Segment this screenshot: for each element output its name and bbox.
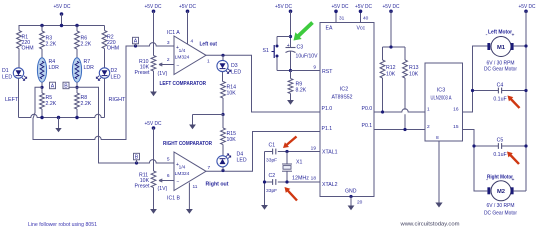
svg-text:11: 11: [193, 184, 198, 190]
capacitor C2: [265, 181, 273, 183]
wire switch S1 to RST: [276, 58, 278, 71]
svg-text:EA: EA: [326, 26, 333, 32]
svg-text:P0.0: P0.0: [362, 106, 373, 112]
svg-text:10K: 10K: [409, 72, 419, 78]
svg-text:S1: S1: [263, 48, 269, 54]
svg-text:LED: LED: [2, 75, 12, 81]
svg-text:Left Motor: Left Motor: [488, 30, 513, 36]
wire XTAL2: [278, 181, 320, 183]
wire node B routing: [77, 87, 174, 163]
svg-text:B: B: [64, 84, 68, 90]
svg-text:M1: M1: [497, 45, 506, 51]
svg-text:19: 19: [311, 146, 317, 152]
svg-text:DC Gear Motor: DC Gear Motor: [484, 211, 517, 217]
junction dot reset top: [289, 35, 292, 38]
svg-text:+5V DC: +5V DC: [145, 4, 162, 10]
svg-text:IC2: IC2: [340, 87, 348, 93]
svg-text:RIGHT COMPARATOR: RIGHT COMPARATOR: [163, 141, 212, 147]
junction dot right out: [221, 169, 224, 172]
motor M1: [491, 37, 511, 57]
svg-text:1: 1: [207, 59, 210, 65]
ground (sensor rail): [58, 118, 60, 129]
svg-text:C5: C5: [497, 138, 504, 144]
svg-text:LEFT COMPARATOR: LEFT COMPARATOR: [160, 81, 207, 87]
svg-text:10K: 10K: [386, 72, 396, 78]
svg-text:0.1uF: 0.1uF: [493, 152, 506, 158]
wire pull-up rail: [383, 46, 406, 48]
svg-text:6: 6: [167, 173, 170, 179]
LED D1: [13, 68, 23, 78]
svg-text:LM324: LM324: [175, 171, 190, 177]
wire right comparator output to P1.1: [206, 132, 320, 172]
IC2 pin EA: [335, 11, 337, 22]
junction dot XTAL1: [285, 150, 288, 153]
svg-text:10uF/10V: 10uF/10V: [296, 54, 319, 60]
svg-text:2.2K: 2.2K: [46, 101, 57, 107]
svg-text:+: +: [512, 177, 515, 183]
svg-text:4: 4: [191, 39, 194, 45]
op-amp IC1 A: [174, 36, 206, 75]
node A junction (sensor divider): [41, 82, 43, 93]
resistor R1: [18, 26, 20, 31]
junction dot left out: [221, 54, 224, 57]
wire M1 to +5V rail: [514, 45, 526, 47]
svg-text:1/4: 1/4: [179, 165, 186, 171]
svg-text:B: B: [135, 155, 139, 161]
svg-text:8.2K: 8.2K: [296, 88, 307, 94]
node B junction (sensor divider): [76, 82, 78, 93]
preset R11: [153, 128, 155, 171]
wire D2 cathode to ground rail: [104, 78, 106, 117]
svg-text:2: 2: [427, 124, 430, 130]
svg-text:AT89S52: AT89S52: [332, 95, 353, 101]
IC3 pin 8 ground wire: [438, 141, 440, 203]
svg-text:Right Motor: Right Motor: [487, 175, 514, 181]
svg-text:XTAL2: XTAL2: [322, 182, 338, 188]
svg-text:6V / 30 RPM: 6V / 30 RPM: [487, 203, 515, 209]
svg-text:+5V DC: +5V DC: [383, 4, 400, 10]
resistor R2: [104, 26, 106, 31]
svg-text:LEFT: LEFT: [5, 97, 19, 103]
svg-text:+5V DC: +5V DC: [275, 4, 292, 10]
svg-text:−: −: [177, 179, 180, 185]
svg-text:+5V DC: +5V DC: [145, 121, 162, 127]
ground (R9): [287, 100, 294, 105]
svg-text:IC3: IC3: [437, 88, 445, 94]
wire C3 to RST: [290, 52, 292, 71]
svg-text:9: 9: [313, 65, 316, 71]
svg-text:1/4: 1/4: [179, 48, 186, 54]
ground (C1 C2): [261, 205, 268, 210]
resistor R5: [40, 93, 45, 109]
node B dot at comparator: [135, 161, 138, 164]
resistor R12: [382, 47, 384, 60]
resistor R6: [76, 26, 78, 32]
op-amp IC1 B: [174, 152, 206, 191]
IC AT89S52 U-IC2 box: [320, 23, 374, 197]
svg-text:16: 16: [453, 107, 459, 113]
svg-text:A: A: [134, 39, 138, 45]
svg-text:D2: D2: [111, 68, 118, 74]
LED D3: [222, 55, 224, 60]
svg-text:15: 15: [453, 124, 459, 130]
node A label box: [50, 82, 56, 89]
svg-text:Preset: Preset: [135, 184, 151, 190]
resistor R9: [290, 71, 292, 79]
node A label box at comparator: [133, 37, 139, 44]
ground (LED chain): [189, 125, 196, 130]
svg-text:+: +: [287, 43, 290, 49]
motor M2: [491, 181, 511, 201]
svg-text:C4: C4: [497, 83, 504, 89]
capacitor C4: [473, 90, 499, 92]
resistor R3: [41, 26, 43, 32]
svg-text:+5V DC: +5V DC: [332, 4, 349, 10]
svg-text:C3: C3: [297, 45, 304, 51]
node A dot at comparator: [134, 44, 137, 47]
IC2 pin Vcc: [360, 11, 362, 22]
svg-text:2: 2: [167, 57, 170, 63]
svg-text:2.2K: 2.2K: [81, 101, 92, 107]
wire to switch S1: [277, 36, 291, 38]
capacitor C5: [474, 145, 498, 147]
wire to LED ground: [193, 114, 224, 116]
svg-text:LED: LED: [111, 75, 121, 81]
wire node A routing: [33, 43, 174, 140]
svg-text:+5V DC: +5V DC: [54, 4, 71, 10]
junction dot XTAL2: [285, 180, 288, 183]
svg-text:D1: D1: [2, 68, 9, 74]
svg-text:Vcc: Vcc: [357, 26, 366, 32]
junction dot RST: [289, 69, 292, 72]
svg-text:−: −: [177, 63, 180, 69]
red arrow annotation (C4): [508, 96, 521, 109]
svg-text:XTAL1: XTAL1: [322, 150, 338, 156]
svg-text:LDR: LDR: [49, 65, 60, 71]
svg-text:18: 18: [311, 176, 317, 182]
svg-text:RST: RST: [322, 69, 333, 75]
svg-text:R13: R13: [409, 65, 419, 71]
svg-text:(1V): (1V): [158, 186, 168, 192]
LED D2: [99, 68, 109, 78]
svg-text:LDR: LDR: [84, 65, 95, 71]
ground (IC2 GND): [348, 206, 355, 211]
svg-text:LED: LED: [237, 158, 247, 164]
node B label box at comparator: [134, 153, 140, 160]
IC ULN2003A U-IC3 box: [425, 63, 463, 141]
svg-text:31: 31: [339, 16, 345, 22]
svg-text:(1V): (1V): [158, 71, 168, 77]
svg-text:8: 8: [436, 135, 439, 141]
red arrow annotation (C1): [283, 136, 297, 148]
wire M2 to +5V rail: [514, 190, 526, 192]
green arrow annotation (C3): [294, 21, 314, 40]
svg-text:D3: D3: [231, 63, 238, 69]
svg-text:R12: R12: [386, 65, 396, 71]
svg-text:1: 1: [427, 107, 430, 113]
svg-text:A: A: [51, 84, 55, 90]
LDR R7: [72, 58, 81, 82]
wire sensor +5V rail: [19, 25, 105, 27]
wire XTAL1: [278, 151, 320, 153]
wire D1 cathode to ground rail: [18, 78, 20, 117]
wire sensor ground rail: [19, 114, 105, 117]
resistor R13: [404, 47, 406, 60]
svg-text:+5V DC: +5V DC: [355, 4, 372, 10]
svg-text:Preset: Preset: [135, 70, 151, 76]
svg-text:10K: 10K: [227, 137, 237, 143]
svg-text:P0.1: P0.1: [362, 123, 373, 129]
node B label box: [63, 82, 69, 89]
LED D4: [217, 156, 228, 167]
resistor R14: [222, 72, 224, 82]
svg-text:12MHz: 12MHz: [292, 176, 310, 182]
svg-text:OHM: OHM: [22, 46, 34, 52]
svg-text:7: 7: [208, 165, 211, 171]
svg-text:Left out: Left out: [200, 42, 218, 48]
capacitor C1: [265, 151, 273, 153]
wire capacitor common to ground: [264, 152, 266, 206]
svg-text:40: 40: [363, 16, 369, 22]
svg-text:IC1 B: IC1 B: [167, 196, 181, 202]
svg-text:LM324: LM324: [175, 55, 190, 61]
wire RST to IC2: [291, 70, 321, 72]
svg-text:+5V DC: +5V DC: [519, 4, 536, 10]
wire IC3 pin15 to M2: [463, 130, 488, 192]
svg-text:P1.0: P1.0: [322, 106, 333, 112]
svg-text:33pF: 33pF: [266, 188, 277, 194]
ground (IC3 pin 8): [435, 203, 442, 208]
wire P0.0 to IC3 pin 1: [374, 109, 425, 112]
svg-text:20: 20: [357, 200, 363, 206]
red arrow annotation (C5): [507, 152, 520, 165]
wire left comparator output to P1.0: [206, 55, 320, 112]
svg-text:0.1uF: 0.1uF: [493, 97, 506, 103]
junction dot LED chain ground: [221, 113, 224, 116]
svg-text:RIGHT: RIGHT: [109, 97, 126, 103]
svg-text:33pF: 33pF: [266, 158, 277, 164]
svg-text:-: -: [486, 178, 488, 184]
LDR R4: [37, 58, 46, 82]
svg-text:Line follower robot using 8051: Line follower robot using 8051: [28, 222, 97, 228]
svg-text:GND: GND: [345, 189, 357, 195]
resistor R15: [222, 115, 224, 129]
wire IC3 pin16 to M1: [463, 46, 489, 112]
svg-text:+5V DC: +5V DC: [179, 4, 196, 10]
crystal X1: [286, 152, 288, 165]
svg-text:OHM: OHM: [107, 46, 119, 52]
svg-text:LED: LED: [231, 70, 241, 76]
switch S1: [276, 45, 279, 48]
svg-text:C2: C2: [269, 173, 276, 179]
node junction dots on sensor rail: [40, 24, 43, 27]
svg-text:IC1 A: IC1 A: [167, 30, 180, 36]
svg-text:M2: M2: [497, 189, 505, 195]
resistor R8: [75, 93, 80, 109]
IC2 GND pin 20: [349, 195, 352, 198]
svg-text:DC Gear Motor: DC Gear Motor: [484, 67, 517, 73]
ground (IC1B pin 11): [188, 183, 190, 210]
svg-text:ULN2003 A: ULN2003 A: [431, 96, 452, 102]
ground (R10): [153, 71, 155, 92]
ground (R11): [153, 188, 155, 210]
junction dots on ground rail: [40, 116, 43, 119]
red arrow annotation (C2): [285, 187, 298, 201]
svg-text:C1: C1: [269, 143, 276, 149]
preset R10: [153, 11, 155, 55]
svg-text:2.2K: 2.2K: [46, 42, 57, 48]
svg-text:5: 5: [167, 157, 170, 163]
svg-text:2.2K: 2.2K: [81, 42, 92, 48]
svg-text:X1: X1: [296, 160, 302, 166]
svg-text:10K: 10K: [227, 91, 237, 97]
svg-text:www.circuitstoday.com: www.circuitstoday.com: [399, 222, 459, 228]
svg-text:Right out: Right out: [206, 182, 229, 188]
svg-text:+: +: [512, 33, 515, 39]
capacitor C3: [286, 47, 296, 49]
svg-text:3: 3: [167, 40, 170, 46]
svg-text:P1.1: P1.1: [322, 126, 333, 132]
svg-text:-: -: [486, 33, 488, 39]
wire P0.1 to IC3 pin 2: [374, 129, 425, 131]
